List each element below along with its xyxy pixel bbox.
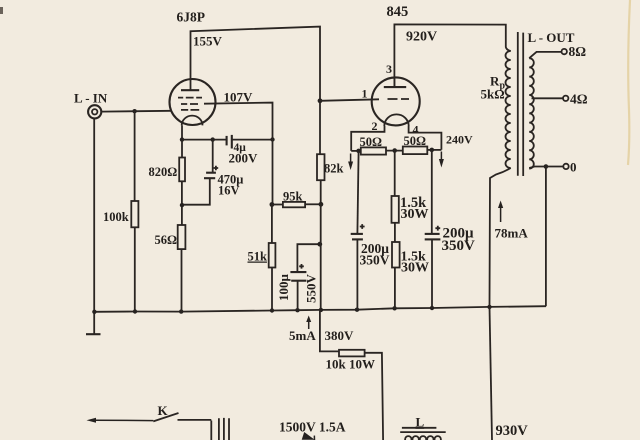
wire switch to mains transformer [178, 420, 212, 440]
arrow hum-balance right [440, 152, 442, 161]
node 845 grid / coupling [318, 98, 323, 103]
wire filament pin 2 leg [351, 126, 384, 151]
resistor 820ohm [149, 140, 186, 225]
resistor 1.5k 30W lower [392, 242, 429, 308]
transformer core [518, 32, 523, 176]
label Rp 5kohm [481, 74, 506, 102]
arrow 78mA [500, 206, 502, 222]
svg-text:6J8P: 6J8P [177, 10, 206, 25]
svg-text:50Ω: 50Ω [360, 135, 383, 149]
node 95k right [319, 202, 324, 207]
wire 107V screen lead [204, 103, 273, 140]
terminal 4ohm [563, 96, 568, 101]
svg-text:240V: 240V [446, 133, 473, 147]
output transformer secondary winding [529, 58, 534, 168]
svg-text:930V: 930V [496, 423, 529, 439]
svg-text:50Ω: 50Ω [404, 134, 427, 148]
wire input jack to 6J8P grid [102, 110, 171, 113]
resistor 10k 10W [326, 350, 384, 440]
wire cathode row to coupling cap [182, 139, 226, 141]
svg-text:51k: 51k [248, 250, 268, 264]
switch K blade [153, 413, 178, 421]
arrow 5mA [308, 320, 310, 329]
node bus/930V-line [487, 305, 491, 309]
mains transformer core [219, 418, 229, 440]
output transformer primary winding [506, 51, 511, 168]
diode rectifier [303, 432, 317, 440]
node right cap tap [430, 148, 435, 153]
svg-text:78mA: 78mA [495, 226, 529, 241]
choke L [400, 415, 446, 440]
wire 0 tap to ground bus [545, 167, 547, 307]
svg-text:4Ω: 4Ω [570, 92, 588, 107]
capacitor 4u 200V [227, 135, 258, 166]
svg-text:155V: 155V [193, 34, 223, 49]
wire cap to screen node [232, 139, 273, 141]
terminal 0 [563, 164, 568, 169]
svg-text:30W: 30W [401, 261, 429, 276]
resistor 51k [248, 205, 276, 311]
resistor 50ohm right [403, 134, 442, 154]
resistor 95k [272, 190, 321, 208]
capacitor 470u 16V [182, 140, 243, 205]
svg-text:820Ω: 820Ω [149, 165, 178, 179]
node bus/1.5k-chain [392, 306, 396, 310]
tube V1 6J8P [170, 79, 216, 125]
node bus/right-200u [430, 306, 434, 310]
node bus/jack [92, 310, 96, 314]
svg-text:30W: 30W [401, 207, 429, 222]
terminal 8ohm [562, 49, 567, 54]
node screen/coupling junction [270, 137, 274, 141]
wire cathode lead 6J8P [181, 125, 183, 139]
node filament center tap [392, 148, 397, 153]
switch K arrow [95, 419, 153, 421]
wire 0 tap [529, 167, 563, 169]
resistor 82k [317, 101, 344, 310]
node 100u top junction [317, 242, 322, 247]
svg-text:L - OUT: L - OUT [528, 30, 575, 45]
node bus/100u [295, 308, 299, 312]
node 0-tap/ground drop [544, 164, 549, 169]
arrow hum-balance left [350, 154, 352, 164]
wire filament pin 4 leg [409, 126, 442, 150]
svg-text:1: 1 [362, 87, 368, 101]
wire 4ohm tap [532, 97, 563, 99]
svg-text:380V: 380V [325, 328, 355, 343]
svg-text:5mA: 5mA [289, 328, 316, 343]
svg-text:82k: 82k [324, 162, 344, 176]
node bus/left-200u [355, 308, 359, 312]
node bus/100k [133, 309, 137, 313]
svg-text:107V: 107V [224, 90, 254, 105]
svg-text:350V: 350V [442, 238, 476, 254]
wire 10k dropper from bus [320, 310, 339, 352]
svg-text:8Ω: 8Ω [569, 44, 587, 59]
svg-text:L - IN: L - IN [74, 91, 108, 106]
node left cap tap [356, 149, 361, 154]
capacitor 100u 550V [276, 244, 320, 310]
node 470u tap [211, 137, 215, 141]
wire primary bottom to B+ line [490, 168, 511, 307]
capacitor 200u 350V left [351, 151, 390, 310]
svg-text:100μ: 100μ [276, 274, 291, 302]
ground bus wire [94, 306, 546, 312]
wire 845 grid lead [320, 99, 379, 101]
node cathode junction [180, 137, 184, 141]
svg-text:200V: 200V [229, 151, 259, 166]
svg-text:16V: 16V [218, 184, 240, 198]
capacitor 200u 350V right [425, 150, 475, 308]
svg-text:2: 2 [372, 119, 378, 133]
ground [86, 312, 101, 334]
wire 920V plate rail to output transformer [394, 24, 510, 86]
svg-text:5kΩ: 5kΩ [481, 87, 505, 102]
resistor 1.5k 30W upper [392, 151, 429, 243]
svg-text:100k: 100k [103, 210, 129, 224]
svg-text:3: 3 [386, 62, 392, 76]
wire screen node down to 95k [272, 140, 274, 205]
svg-text:0: 0 [570, 160, 577, 175]
svg-text:550V: 550V [304, 274, 319, 304]
tube V2 845 [372, 77, 420, 126]
node input/100k junction [132, 109, 136, 113]
node bus/82k-chain [319, 308, 323, 312]
node 820/470u junction [180, 203, 184, 207]
node bus/51k [270, 308, 274, 312]
resistor R 100k [103, 111, 138, 311]
svg-text:1500V 1.5A: 1500V 1.5A [279, 420, 346, 435]
resistor 50ohm left [351, 135, 386, 155]
svg-text:95k: 95k [283, 190, 303, 204]
node bus/56ohm [179, 309, 183, 313]
wire 930V line down [490, 307, 493, 440]
wire between 50ohm resistors [386, 150, 403, 152]
svg-text:K: K [158, 403, 169, 418]
svg-text:10k 10W: 10k 10W [326, 357, 375, 372]
svg-text:920V: 920V [406, 30, 437, 45]
wire input shield drop [93, 118, 95, 311]
node 95k left [270, 202, 275, 207]
wire 155V plate rail (6J8P plate to 845 grid node) [191, 27, 321, 101]
input jack L-IN [88, 105, 101, 118]
resistor 56ohm [155, 225, 186, 312]
svg-text:350V: 350V [360, 253, 390, 268]
svg-text:845: 845 [387, 4, 409, 20]
svg-text:56Ω: 56Ω [155, 233, 178, 247]
wire 8ohm tap [529, 52, 561, 58]
